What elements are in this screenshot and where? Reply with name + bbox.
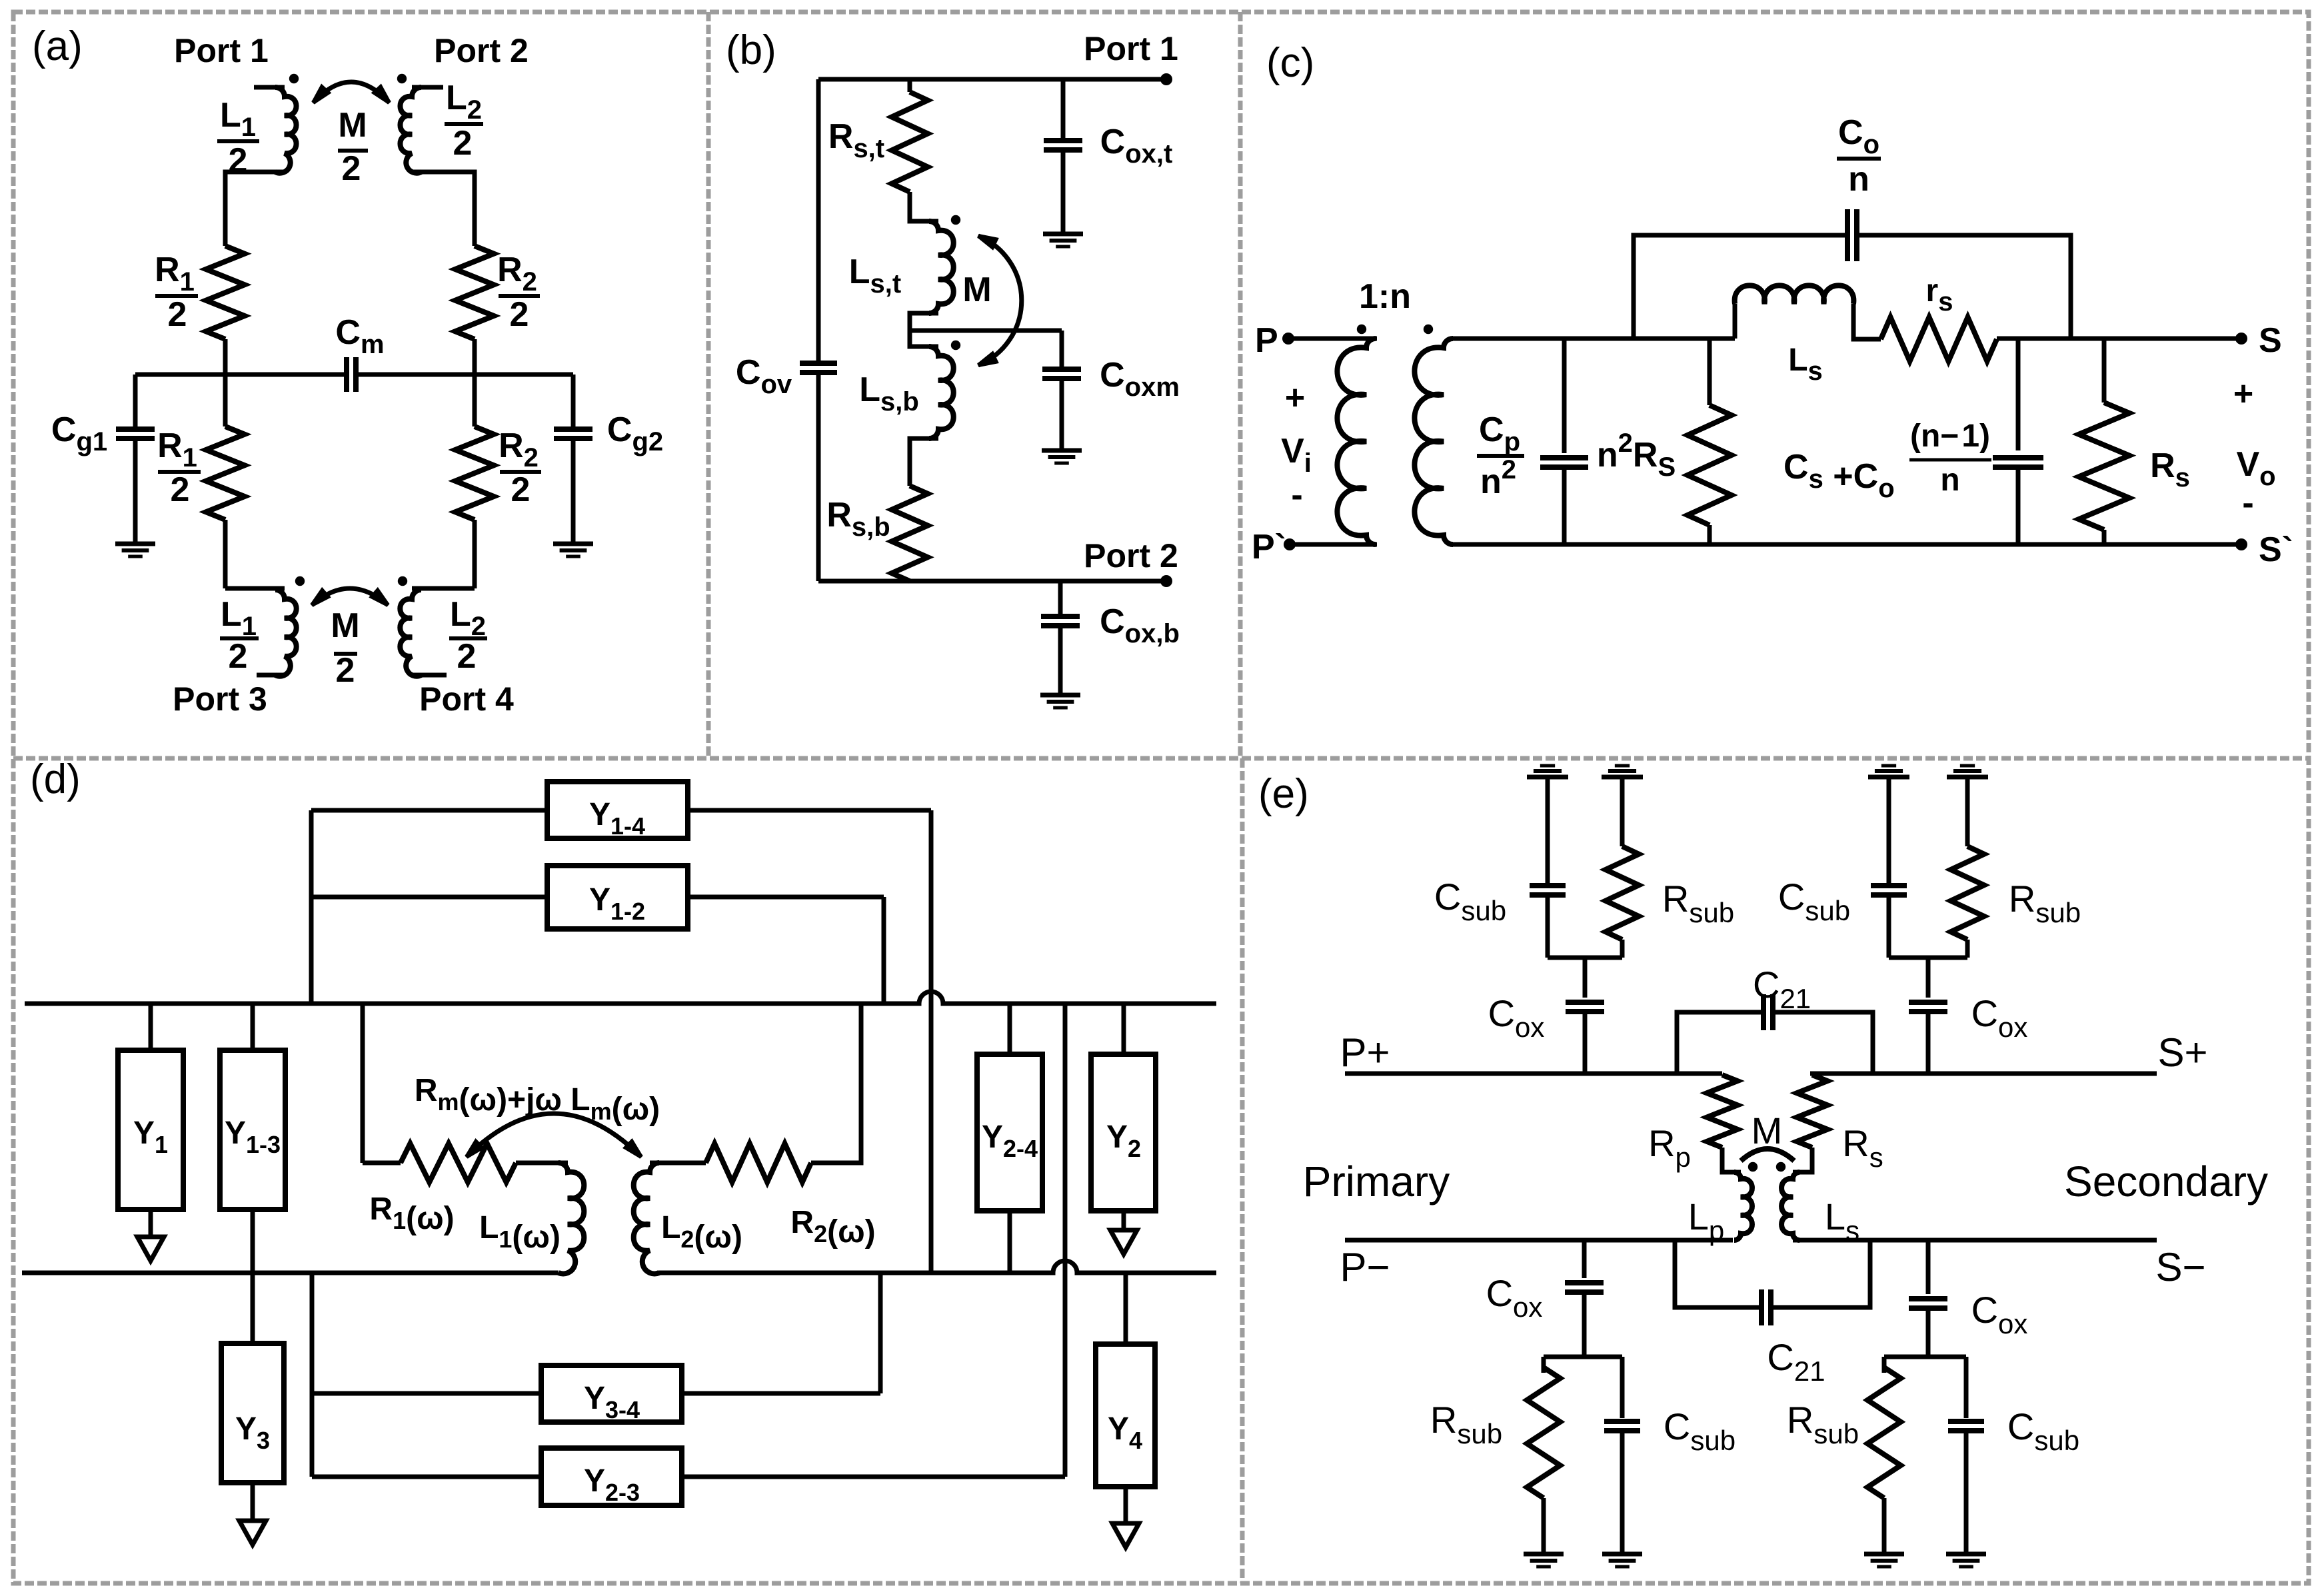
wire xyxy=(1582,1240,1587,1278)
wire Port3 stub xyxy=(257,673,285,678)
svg-text:Port 2: Port 2 xyxy=(434,32,529,69)
resistor rs xyxy=(1881,317,1997,361)
wire xyxy=(251,1004,255,1050)
capacitor Cox top-right xyxy=(1909,1000,1947,1005)
svg-text:2: 2 xyxy=(510,295,529,334)
capacitor Csub top-left xyxy=(1530,883,1566,888)
capacitor Cs+Co(n-1)/n xyxy=(2016,339,2021,450)
wire P+ rail xyxy=(1345,1072,1722,1076)
svg-text:2: 2 xyxy=(229,637,248,676)
svg-text:Port 2: Port 2 xyxy=(1084,537,1178,574)
ground bottom-right Rsub xyxy=(1864,1552,1904,1557)
svg-text:Port 1: Port 1 xyxy=(174,32,269,69)
svg-text:S: S xyxy=(2259,321,2282,360)
wire C21 bottom loop xyxy=(1675,1240,1761,1307)
capacitor Coxt xyxy=(1044,138,1082,143)
wire xyxy=(1546,895,1550,958)
wire xyxy=(816,373,821,581)
ground Coxm xyxy=(1042,448,1082,453)
svg-text:2: 2 xyxy=(457,637,477,676)
svg-text:-: - xyxy=(1291,476,1302,514)
wire bottom rail (c) xyxy=(1453,542,2241,547)
wire xyxy=(1887,777,1891,883)
svg-text:M: M xyxy=(338,106,367,145)
wire xyxy=(910,313,938,331)
wire xyxy=(1882,1498,1887,1554)
capacitor Cp/n2 xyxy=(1562,339,1567,453)
polarity dot L2/2 bottom xyxy=(398,576,407,586)
terminal dot P xyxy=(1282,333,1294,345)
wire riser Y1-2 right xyxy=(882,897,886,1004)
box Y2-3 xyxy=(541,1448,682,1505)
svg-text:P+: P+ xyxy=(1340,1030,1390,1075)
wire xyxy=(1542,1498,1546,1554)
svg-text:P: P xyxy=(1255,321,1278,360)
ground arrow Y2 xyxy=(1122,1211,1126,1241)
wire xyxy=(910,192,938,221)
polarity dot Lst xyxy=(951,215,960,225)
wire xyxy=(1008,1004,1012,1054)
svg-text:S−: S− xyxy=(2155,1245,2205,1289)
wire Port1 stub xyxy=(254,85,285,90)
wire xyxy=(1008,1211,1012,1273)
polarity dot L1/2 top xyxy=(289,74,299,83)
capacitor Cg2 xyxy=(554,426,592,432)
wire bottom bus left (d) xyxy=(22,1271,559,1275)
ground bottom-left Rsub xyxy=(1524,1552,1564,1557)
capacitor Cm xyxy=(344,357,349,392)
svg-text:P`: P` xyxy=(1252,528,1286,566)
terminal dot S xyxy=(2235,333,2247,345)
inductor L1/2 top-left xyxy=(275,87,297,173)
capacitor Cox bottom-left xyxy=(1565,1280,1604,1285)
wire riser Y1-4 right xyxy=(929,810,934,1273)
coupling arrow M/2 top xyxy=(313,82,389,103)
wire xyxy=(1620,940,1625,958)
wire xyxy=(1857,235,2071,339)
wire xyxy=(473,520,477,588)
wire xyxy=(1548,956,1622,960)
wire xyxy=(1061,79,1066,141)
resistor Rs (e) xyxy=(1797,1075,1827,1148)
wire xyxy=(571,375,576,429)
svg-text:(a): (a) xyxy=(32,23,83,69)
wire riser xyxy=(878,1273,883,1393)
ground Coxb xyxy=(1040,693,1080,698)
wire xyxy=(1544,1355,1622,1359)
wire top bus (d) with hop xyxy=(25,992,1216,1004)
inductor Lp xyxy=(1734,1172,1752,1240)
polarity dot Ls (e) xyxy=(1776,1162,1785,1172)
svg-text:P−: P− xyxy=(1340,1245,1390,1289)
capacitor Cg1 xyxy=(116,426,155,432)
wire xyxy=(682,1475,1065,1479)
wire riser xyxy=(310,1273,315,1477)
resistor Rsub bottom-left xyxy=(1542,1357,1546,1373)
svg-text:(c): (c) xyxy=(1266,40,1314,86)
inductor L1/2 bottom-left xyxy=(275,590,297,676)
resistor R2(w) xyxy=(650,1161,706,1166)
wire xyxy=(311,895,547,900)
inductor Ls (e) xyxy=(1781,1172,1799,1240)
wire xyxy=(1771,1240,1870,1307)
wire xyxy=(314,1391,541,1396)
polarity dot L2/2 top xyxy=(397,74,407,83)
wire xyxy=(1058,581,1063,616)
wire xyxy=(361,1004,365,1163)
box Y1-4 xyxy=(547,782,688,838)
wire xyxy=(1060,331,1064,369)
wire xyxy=(1582,1292,1587,1357)
wire xyxy=(910,331,938,347)
polarity dot secondary (c) xyxy=(1424,325,1433,334)
wire xyxy=(1124,1273,1128,1344)
wire xyxy=(311,808,547,813)
terminal dot P` xyxy=(1284,538,1296,550)
svg-text:M: M xyxy=(1751,1110,1783,1152)
ground Cg1 xyxy=(115,542,155,546)
resistor R1(w) xyxy=(363,1161,401,1166)
wire middle node (b) xyxy=(910,329,1062,333)
resistor Rst xyxy=(892,92,928,192)
wire xyxy=(1889,956,1967,960)
wire xyxy=(1926,1308,1931,1357)
wire xyxy=(1620,1431,1625,1554)
terminal dot S` xyxy=(2235,538,2247,550)
svg-text:2: 2 xyxy=(171,470,190,509)
wire xyxy=(356,373,573,377)
svg-text:+: + xyxy=(2233,375,2253,413)
ground Coxt xyxy=(1043,232,1083,237)
coupling arrow M/2 bottom xyxy=(312,588,388,605)
wire P- rail xyxy=(1345,1238,1733,1243)
wire left branch (b) xyxy=(816,79,821,361)
wire xyxy=(1773,1012,1873,1074)
wire riser Y2-3 right xyxy=(1063,1004,1068,1477)
resistor Rs (c) xyxy=(2102,339,2107,402)
svg-text:2: 2 xyxy=(168,295,187,334)
svg-text:2: 2 xyxy=(336,651,355,690)
wire xyxy=(1733,304,1738,339)
capacitor Csub bottom-left xyxy=(1620,1357,1625,1418)
wire xyxy=(1965,777,1970,846)
wire xyxy=(1964,1431,1969,1554)
box Y3 xyxy=(221,1343,284,1483)
inductor L1(w) xyxy=(559,1163,584,1273)
wire xyxy=(251,1209,255,1343)
svg-text:Port 3: Port 3 xyxy=(173,680,267,718)
wire xyxy=(682,1391,880,1396)
ground bottom-left Csub xyxy=(1602,1552,1642,1557)
wire xyxy=(1926,958,1931,998)
wire xyxy=(688,895,884,900)
polarity dot primary (c) xyxy=(1357,325,1366,334)
ground top-left Csub xyxy=(1527,775,1568,780)
wire xyxy=(908,79,912,92)
capacitor Cox top-left xyxy=(1566,1000,1604,1005)
ground arrow Y4 xyxy=(1124,1487,1128,1534)
svg-text:2: 2 xyxy=(511,470,531,509)
wire xyxy=(1965,940,1970,958)
wire xyxy=(1620,777,1625,846)
wire xyxy=(1290,542,1377,547)
coupling arc M (e) xyxy=(1741,1149,1794,1161)
resistor Rsub top-right xyxy=(1951,846,1984,940)
wire xyxy=(516,1161,568,1166)
capacitor C21 top xyxy=(1761,994,1766,1030)
wire xyxy=(1887,895,1891,958)
capacitor Coxm xyxy=(1042,367,1081,372)
wire xyxy=(1060,379,1064,450)
capacitor Cox bottom-right xyxy=(1909,1296,1947,1301)
coupling arrow M (b) xyxy=(978,236,1022,365)
wire S- rail xyxy=(1793,1238,2157,1243)
ground top-right Csub xyxy=(1868,775,1909,780)
svg-text:(n− 1): (n− 1) xyxy=(1910,418,1990,454)
wire middle node xyxy=(135,373,347,377)
wire xyxy=(1722,1148,1741,1172)
polarity dot Lsb xyxy=(951,341,960,350)
resistor Rp xyxy=(1707,1075,1738,1148)
resistor Rsb xyxy=(892,486,928,581)
inductor L2(w) xyxy=(634,1163,659,1273)
svg-text:S`: S` xyxy=(2259,530,2293,569)
wire xyxy=(1122,1004,1126,1054)
wire xyxy=(1058,626,1063,695)
capacitor Csub top-right xyxy=(1871,883,1907,888)
capacitor Coxb xyxy=(1041,614,1080,619)
ground arrow Y3 xyxy=(251,1483,255,1533)
box Y1 xyxy=(118,1050,183,1209)
ground bottom-right Csub xyxy=(1946,1552,1986,1557)
wire top rail (c) left part xyxy=(1453,337,1735,341)
terminal dot Port 2 (b) xyxy=(1160,575,1172,587)
wire xyxy=(412,172,475,246)
wire Co/n loop xyxy=(1634,235,1847,339)
polarity dot L1/2 bottom xyxy=(295,576,305,586)
ground top-right Rsub xyxy=(1947,775,1988,780)
wire xyxy=(910,438,938,486)
capacitor Cov xyxy=(800,361,837,366)
ground arrow Y1 xyxy=(149,1209,153,1249)
svg-text:M: M xyxy=(962,271,991,309)
svg-text:(d): (d) xyxy=(30,756,81,802)
box Y1-3 xyxy=(220,1050,285,1209)
wire bottom bus right (d) with hop xyxy=(658,1261,1216,1273)
svg-text:-: - xyxy=(2242,484,2253,522)
wire xyxy=(225,586,285,591)
ground top-left Rsub xyxy=(1602,775,1643,780)
wire xyxy=(1288,337,1377,341)
transformer secondary coil (c) xyxy=(1414,339,1453,544)
wire xyxy=(571,438,576,544)
wire xyxy=(412,586,475,591)
inductor Lsb xyxy=(929,347,954,438)
wire xyxy=(1583,958,1588,998)
svg-text:S+: S+ xyxy=(2157,1030,2207,1075)
capacitor C21 bottom xyxy=(1759,1289,1764,1325)
wire xyxy=(1926,1012,1931,1074)
capacitor Csub bottom-right xyxy=(1964,1357,1969,1418)
polarity dot Lp xyxy=(1748,1162,1757,1172)
wire xyxy=(1546,777,1550,883)
svg-text:n: n xyxy=(1940,462,1959,498)
svg-text:2: 2 xyxy=(453,124,473,163)
wire xyxy=(223,339,228,426)
wire xyxy=(1853,304,1881,339)
wire S+ rail xyxy=(1810,1072,2157,1076)
wire xyxy=(312,1475,541,1479)
svg-text:(e): (e) xyxy=(1258,771,1309,817)
resistor R1/2 upper-left xyxy=(206,246,245,339)
svg-text:+: + xyxy=(1285,379,1305,417)
box Y2-4 xyxy=(977,1054,1042,1211)
wire xyxy=(1061,150,1066,234)
box Y4 xyxy=(1096,1344,1155,1487)
wire xyxy=(1926,1240,1931,1294)
wire C21 top loop xyxy=(1677,1012,1763,1074)
box Y2 xyxy=(1091,1054,1156,1211)
wire xyxy=(149,1004,153,1050)
svg-text:Primary: Primary xyxy=(1303,1158,1450,1205)
wire xyxy=(133,438,138,544)
ground Cg2 xyxy=(553,542,593,546)
svg-text:M: M xyxy=(331,606,359,645)
wire Port2 stub xyxy=(412,85,443,90)
transformer primary coil (c) xyxy=(1337,339,1376,544)
wire xyxy=(688,808,931,813)
wire xyxy=(1793,1148,1812,1172)
wire xyxy=(811,1004,861,1163)
wire xyxy=(225,172,285,246)
svg-text:Secondary: Secondary xyxy=(2064,1158,2268,1205)
svg-text:Port 1: Port 1 xyxy=(1084,30,1178,67)
inductor L2/2 top-right xyxy=(400,87,421,173)
wire xyxy=(473,339,477,426)
resistor R2/2 lower-right xyxy=(455,426,494,520)
svg-text:2: 2 xyxy=(342,149,361,188)
wire top rail (b) xyxy=(818,77,1166,82)
wire xyxy=(133,375,138,429)
box Y1-2 xyxy=(547,866,688,929)
svg-text:1:n: 1:n xyxy=(1359,277,1411,316)
svg-text:n: n xyxy=(1848,160,1869,199)
resistor R2/2 upper-right xyxy=(455,246,494,339)
inductor Lst xyxy=(929,221,954,313)
wire xyxy=(1884,1355,1966,1359)
resistor R1/2 lower-left xyxy=(206,426,245,520)
box Y3-4 xyxy=(541,1365,682,1422)
capacitor Co/n xyxy=(1845,209,1850,261)
inductor L2/2 bottom-right xyxy=(400,590,421,676)
wire xyxy=(1583,1012,1588,1074)
wire top rail (c) right part xyxy=(1997,337,2241,341)
wire riser left xyxy=(309,810,314,1004)
resistor Rsub top-left xyxy=(1606,846,1639,940)
wire bottom rail (b) xyxy=(818,579,1166,584)
wire xyxy=(223,520,228,588)
resistor Rsub bottom-right xyxy=(1882,1357,1887,1373)
svg-text:Port 4: Port 4 xyxy=(419,680,514,718)
wire Port4 stub xyxy=(412,673,447,678)
terminal dot Port 1 (b) xyxy=(1160,73,1172,85)
resistor n2Rs xyxy=(1708,339,1712,405)
svg-text:(b): (b) xyxy=(726,27,776,73)
inductor Ls (c) xyxy=(1735,285,1854,304)
coupling arrow Rm Lm xyxy=(467,1114,641,1157)
